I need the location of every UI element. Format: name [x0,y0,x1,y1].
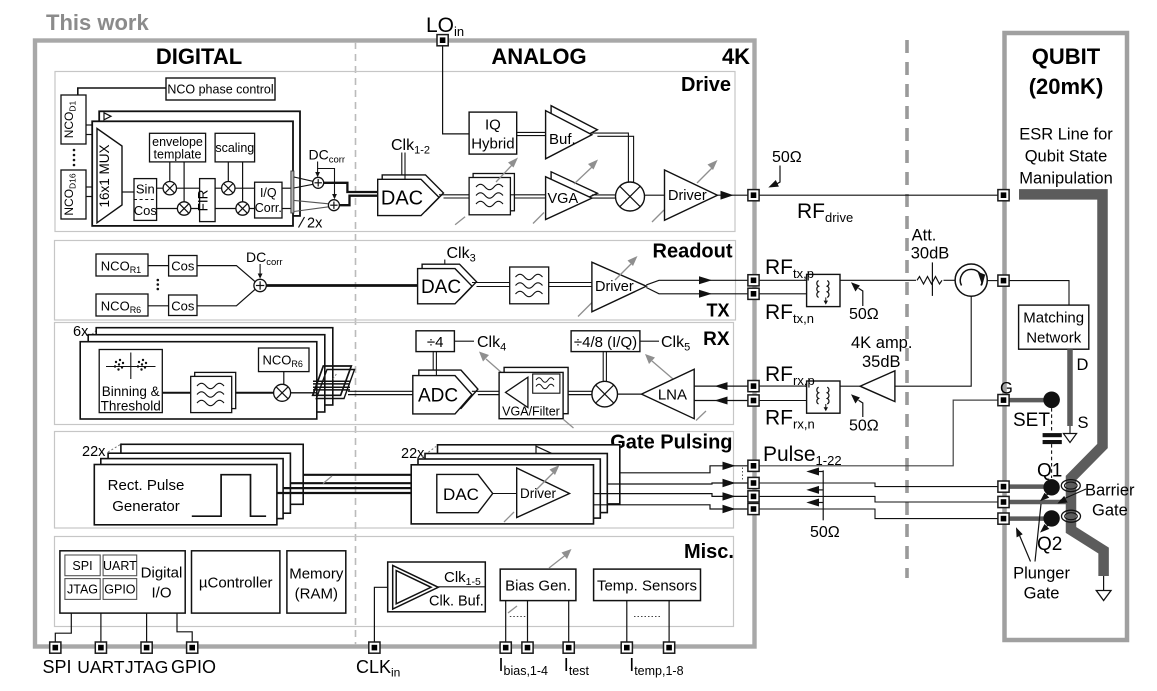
pointer arrow under Q2 [1045,522,1052,528]
thick wire summer2 to DAC [339,196,378,206]
wires temp sensors to ports [626,601,628,644]
svg-text:30dB: 30dB [911,245,950,263]
bus wire 3 [284,487,419,489]
dashed cap to Q1 [1051,444,1053,478]
box NCO phase control [166,78,275,100]
double wire ribbon to ADC [348,390,413,392]
svg-text:QUBIT: QUBIT [1032,44,1101,69]
svg-text:scaling: scaling [215,141,254,155]
svg-text:50Ω: 50Ω [810,524,840,541]
rx filter front [191,376,232,412]
box Matching Network [1019,305,1089,349]
svg-text:JTAG: JTAG [125,657,168,677]
multiplier I env [163,182,176,195]
bus wire 1 [303,474,437,476]
wire pulse1 to SET gate [759,400,998,466]
dotted under bias gen [510,616,526,618]
port Pulse1 [748,460,759,471]
svg-text:Drive: Drive [681,74,731,96]
Readout sub-box [55,241,736,321]
wire Cos1 to summer [197,266,256,283]
box GPIO [103,579,137,600]
front filter drive [469,178,510,215]
arrow 50ohm tx [859,288,863,306]
svg-text:UART: UART [77,657,125,677]
port LOin [437,35,448,46]
gray arrow vga/filter tail [564,420,574,429]
box Binning & Threshold [99,350,162,413]
wire UART to port [100,613,102,644]
box Memory RAM [287,551,346,613]
wire txn to balun [759,293,807,295]
dots between NCO_R [157,279,160,291]
gray arrow vga/filter head [486,359,510,380]
svg-text:Gate: Gate [1024,585,1060,603]
dots between NCOs [73,149,76,167]
svg-text:SET: SET [1013,410,1050,431]
svg-text:LNA: LNA [658,387,687,404]
port RFtxn [748,288,759,299]
svg-text:ADC: ADC [418,386,458,407]
ESR ground [1103,576,1105,591]
wires NCO_D16 to channel box [86,186,92,188]
svg-text:µController: µController [199,575,273,592]
svg-text:JTAG: JTAG [67,583,98,597]
amp VGA back [551,172,597,215]
svg-text:Hybrid: Hybrid [471,136,514,153]
wire NCO_R6 to Cos [148,305,169,307]
svg-text:SPI: SPI [42,657,71,677]
ESR transmission line [1019,194,1104,576]
label Clk5 [640,340,659,342]
wire circulator to 4K amp [895,296,971,386]
box FIR [200,179,216,222]
thick wire summer1 to DAC [324,183,379,192]
double wire filter to VGA [510,194,545,196]
wire Cos path [157,208,200,210]
svg-text:NCO phase control: NCO phase control [167,83,273,97]
box Sin/Cos [134,179,157,221]
Misc sub-box [55,537,734,627]
wire balun to attenuator [840,279,916,281]
mixer rx channel [274,384,291,401]
svg-text:Att.: Att. [912,227,937,245]
wire dac to driver [493,493,517,495]
box I/Q Corr [255,182,282,218]
box envelope template [150,133,206,162]
amp Driver drive [665,170,718,220]
svg-text:FIR: FIR [195,189,210,211]
mixer rx main [592,381,618,407]
wire Clk3 to DAC [444,260,446,265]
wire qubit port2 to matching network [1009,281,1069,306]
filter readout [510,267,549,304]
out wire 4 [594,505,749,509]
svg-text:4K amp.: 4K amp. [851,334,912,352]
port qubit G [998,395,1009,406]
svg-text:Memory: Memory [289,566,344,583]
dashed divider 4K/20mK [905,40,909,578]
wire NCO_D1 to NCO phase control [78,88,166,96]
svg-text:Cos: Cos [134,203,158,218]
front ADC [413,376,472,414]
wires Clk to DAC [401,153,403,175]
box scaling [215,133,255,162]
svg-text:16x1 MUX: 16x1 MUX [97,144,112,207]
port Pulse2 [748,477,759,488]
svg-text:S: S [1078,414,1089,432]
Q2 dot [1043,510,1059,526]
gray arrow VGA tail [533,213,544,224]
bus ribbon [313,366,352,395]
svg-text:DAC: DAC [381,188,423,210]
gray arrow bias gen tail [508,606,517,613]
svg-text:UART: UART [103,559,137,573]
mini filter in box [533,374,560,393]
svg-text:This work: This work [46,10,149,35]
wires envelope to multipliers [169,162,171,182]
back DAC [382,175,443,211]
wire TX n out [646,288,748,294]
gray arrow VGA head [574,167,592,184]
port Pulse4 [748,503,759,514]
box div48 [571,331,640,352]
wire NCO_R1 to Cos [148,265,169,267]
gray arrow driver tail [652,210,664,222]
back VGA/Filter [504,367,568,413]
wire balun to rxn port [759,400,807,402]
dac box 4 [438,445,620,504]
svg-text:Sin: Sin [136,182,155,197]
summer readout [254,279,266,291]
box NCO_D1 [61,95,86,144]
svg-text:ESR Line for: ESR Line for [1019,126,1113,144]
port Pulse3 [748,491,759,502]
Gate Pulsing sub-box [55,432,734,529]
port JTAG [141,642,152,653]
svg-text:GPIO: GPIO [171,657,216,677]
arrow 50ohm drive [775,166,780,185]
svg-text:ANALOG: ANALOG [491,44,586,69]
double wire mixer to VGA/Filter [568,390,592,392]
double wire DAC to filter [439,194,469,196]
pointer plunger line 1 [1019,533,1031,562]
SET source ground [1069,426,1071,434]
svg-text:Bias Gen.: Bias Gen. [505,578,571,595]
double wire Buf to mixer [592,133,629,182]
Q1 dot [1043,479,1059,495]
SET gate stub [1009,398,1044,403]
gray arrow filter head [496,165,512,182]
port CLKin [369,642,380,653]
svg-text:DAC: DAC [421,277,461,298]
pointer plunger line 2 [1035,504,1041,562]
port Itemp1 [621,642,632,653]
clk buffer triangle [393,565,439,609]
gate DAC [437,474,493,512]
SET drain line D [1067,349,1073,426]
svg-text:Temp. Sensors: Temp. Sensors [597,578,697,595]
port Itemp2 [664,642,675,653]
svg-text:(RAM): (RAM) [295,586,338,603]
out wire 3 [594,494,749,497]
svg-text:GPIO: GPIO [104,583,136,597]
double wire ADC to VGA/Filter [472,390,499,392]
amp VGA front [546,177,592,220]
circulator [955,264,987,296]
svg-text:DIGITAL: DIGITAL [156,44,242,69]
svg-text:Clk. Buf.: Clk. Buf. [429,594,484,610]
gray arrow LNA tail [696,411,706,421]
port RFrxp [748,381,759,392]
double wire hybrid to Buf [517,131,551,133]
box SPI [65,555,100,576]
port RFdrive [748,190,759,201]
svg-text:I/O: I/O [151,585,171,602]
svg-text:35dB: 35dB [862,353,901,371]
svg-text:Qubit State: Qubit State [1025,148,1108,166]
box IQ Hybrid [469,112,517,154]
RX sub-box [55,323,734,425]
port Ibias2 [522,642,533,653]
svg-text:22x: 22x [82,444,106,460]
qubit box [1005,33,1128,640]
double wire filter to driver readout [549,282,592,284]
out wire 2 [607,483,748,484]
multiplier I scale [222,182,235,195]
port qubit gate C [998,513,1009,524]
svg-text:Readout: Readout [653,241,733,263]
amp Driver readout [592,262,646,312]
port qubit RFdrive [998,190,1009,201]
wire mixer to LNA [618,393,642,395]
front DAC drive [378,179,439,215]
front channel box [92,121,293,226]
gray arrow gate driver head [536,473,553,490]
svg-text:Buf.: Buf. [549,131,576,148]
dac box 3 [425,454,607,513]
svg-text:Driver: Driver [668,188,707,204]
svg-text:Generator: Generator [112,498,180,515]
wires bias gen to ports [505,601,507,644]
wire binning to filter [162,392,190,394]
wires div4 to ADC [432,352,434,371]
box NCO_R6 rx [259,348,310,372]
pulse gen box 3 [108,453,290,513]
svg-text:template: template [154,148,202,162]
barrier ellipse 1 [1061,480,1080,492]
wire pulse4 to qubit [759,509,998,519]
svg-text:IQ: IQ [485,117,501,134]
port qubit gate A [998,481,1009,492]
dac box 4 driver peek [536,446,552,453]
bus fan lines [313,380,350,382]
wire Sin path [157,187,200,189]
port GPIO [187,642,198,653]
svg-text:÷4: ÷4 [427,334,444,351]
summer2 [328,200,339,211]
bus wire 2 [290,482,425,484]
svg-text:D: D [1077,356,1089,374]
svg-text:Barrier: Barrier [1085,482,1135,500]
dac box 2 [418,459,600,518]
wire mixer to driver [645,194,665,196]
port qubit readout [998,275,1009,286]
svg-text:Plunger: Plunger [1013,565,1070,583]
SET island dot [1043,392,1060,409]
svg-text:Cos: Cos [171,259,195,274]
gray arrow readout driver head [615,264,631,280]
rx channel box back [96,328,333,405]
wire SPI to port [55,613,71,644]
wire pulse3 to qubit [759,496,998,502]
chip outer box (4K chip) [35,41,755,647]
wire mux to SinCos [122,191,134,193]
svg-text:6x: 6x [73,324,89,340]
port UART [95,642,106,653]
svg-text:Driver: Driver [595,279,634,295]
box UART [103,555,137,576]
wires IQcorr out [282,187,291,189]
port RFrxn [748,395,759,406]
pointer barrier to stub [1060,489,1086,501]
pulse gen box front [94,465,277,525]
svg-text:DAC: DAC [443,485,479,504]
mux 16x1 MUX [97,129,122,223]
pointer arrow under Q1 [1045,491,1052,497]
multiplier Q scale [236,202,249,215]
thick wire summer to DAC [266,284,418,287]
dashed divider digital/analog [355,42,357,645]
wire GPIO to port [177,613,192,644]
wire JTAG to port [146,613,148,644]
wire driver to port RFdrive [717,194,748,196]
svg-text:(20mK): (20mK) [1029,74,1104,99]
wire balun to rxp port [759,385,807,387]
gray arrow bias gen head [549,556,565,569]
wire CLKin to buf [374,587,392,644]
gray arrow gate driver tail [504,512,514,522]
multiplier Q env [177,202,190,215]
port Itest [563,642,574,653]
svg-text:50Ω: 50Ω [849,418,879,435]
gray slash on bus [323,476,332,484]
bus wire 4 [277,492,411,494]
Drive sub-box [55,72,735,232]
back ADC [419,370,478,408]
gray arrow readout driver tail [578,303,592,317]
box NCO_R1 [96,254,148,276]
balun TX [807,274,840,306]
label Clk4 [454,340,474,342]
barrier ellipse 2 [1062,510,1081,522]
rx channel box front [80,342,317,419]
pulse gen box 2 [101,459,283,519]
port Ibias1 [500,642,511,653]
dashed SET to cap [1051,408,1053,432]
barrier stub B [1009,500,1067,505]
wires div48 to mixer [602,352,604,382]
wire amp to balun RX [840,385,860,387]
slash 2x [299,217,305,228]
box Cos 2 [169,295,197,316]
svg-text:Manipulation: Manipulation [1019,170,1113,188]
balun RX [807,381,840,413]
box uController [192,551,280,613]
SET capacitor [1043,433,1062,437]
back mux tip [104,113,111,120]
svg-text:TX: TX [706,301,729,321]
svg-text:VGA: VGA [548,191,579,207]
wires scaling to multipliers [227,162,229,182]
vga triangle in box [506,377,528,407]
svg-text:VGA/Filter: VGA/Filter [502,405,560,419]
svg-text:Cos: Cos [171,299,195,314]
rx filter back [195,372,236,408]
summer1 [313,177,324,188]
wire txp to balun [759,279,807,281]
wire mixer to box edge [291,392,317,394]
svg-text:Misc.: Misc. [684,541,734,563]
svg-text:Q1: Q1 [1037,461,1062,482]
rx channel box mid [88,335,325,412]
wires NCO_D1 to channel box [86,124,92,126]
svg-text:I/Q: I/Q [260,186,277,200]
attenuator resistor [917,277,942,285]
50ohm gate terminator [822,470,824,520]
double wire VGA to mixer [592,194,616,196]
svg-text:4K: 4K [722,44,750,69]
bus taper to summer1 [294,177,313,181]
wire DCcorr to summer [259,264,261,274]
amp Driver gate [517,468,570,518]
wire Cos2 to summer [197,289,256,306]
arrow 50ohm rx [859,400,863,417]
plunger stub A [1009,484,1044,489]
bus taper to summer2 [294,200,329,203]
port RFtxp [748,275,759,286]
svg-text:SPI: SPI [72,559,92,573]
box Clk Buf [388,562,486,612]
box NCO_R6 [96,294,148,316]
wire pulse2 to qubit [759,483,998,487]
svg-text:Matching: Matching [1023,310,1084,327]
svg-text:Gate: Gate [1092,502,1128,520]
amp Buf back [551,106,597,154]
port SPI [50,642,61,653]
front VGA/Filter [499,372,563,418]
box Temp Sensors [594,569,701,601]
svg-text:RX: RX [703,329,730,350]
amp LNA [642,369,695,419]
back filter drive [473,174,514,211]
gray arrow driver head [697,168,712,183]
svg-text:Binning &: Binning & [102,384,160,399]
box Digital I/O [60,551,185,613]
plunger stub C [1009,516,1044,521]
pulse gen box 4 [121,444,303,504]
dac box front [411,465,593,524]
front DAC readout [418,269,472,304]
svg-text:2x: 2x [307,216,323,232]
box Cos 1 [169,256,197,277]
out wire 1 [620,466,748,473]
wire NCO to mixer [283,372,285,385]
mixer drive [616,182,645,211]
svg-text:Network: Network [1026,330,1082,347]
connector bar [291,171,294,213]
wire DCcorr to summers [317,162,319,173]
